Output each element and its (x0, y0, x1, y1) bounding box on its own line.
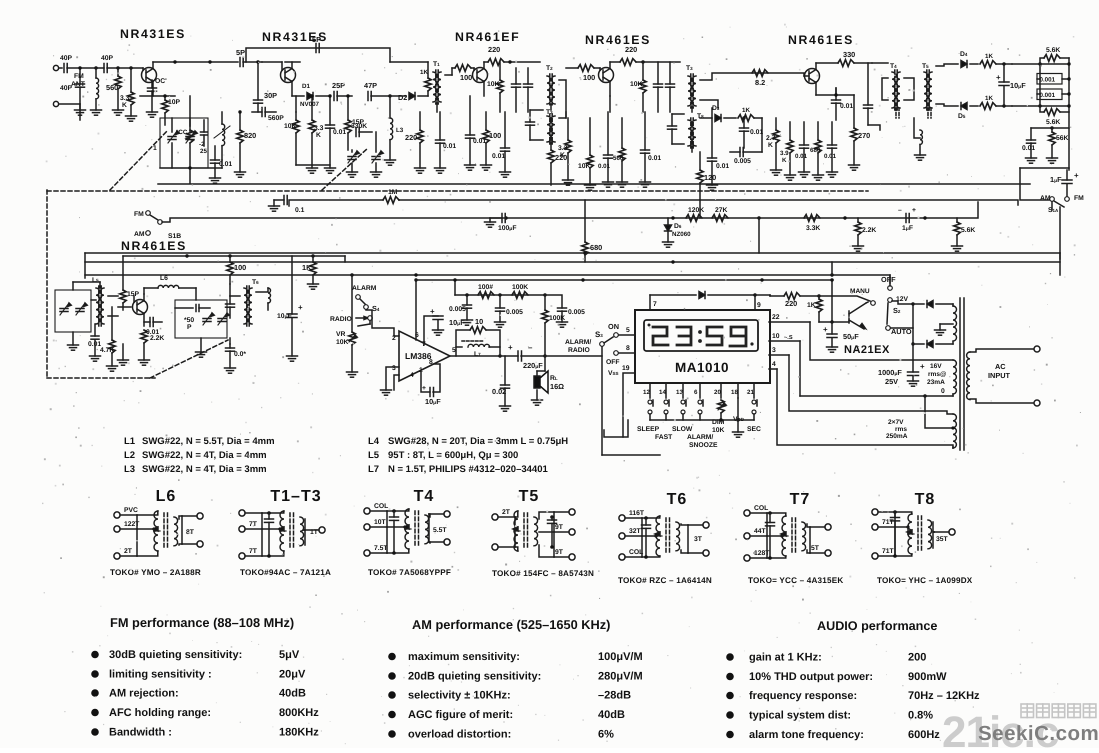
resistor 10K mixer (284, 112, 299, 165)
svg-text:4: 4 (772, 361, 776, 368)
svg-text:6: 6 (694, 389, 698, 396)
wire AM box (68, 282, 101, 350)
dashed gang frame (47, 130, 868, 378)
svg-text:280μV/M: 280μV/M (598, 671, 643, 683)
coil spec L3 (124, 464, 267, 475)
label T8 35T (936, 536, 949, 543)
label T4 5.5T (433, 527, 447, 534)
svg-text:T4: T4 (890, 63, 897, 70)
capacitor 1uF bus (898, 207, 916, 232)
switch MANU (850, 288, 875, 305)
resistor 100 C (452, 65, 474, 82)
svg-text:3.3: 3.3 (558, 145, 568, 152)
resistor 1K D3 (738, 107, 762, 121)
svg-text:128T: 128T (754, 550, 770, 557)
svg-text:*CC: *CC (176, 129, 188, 136)
transformer pictorial T1-T3 (239, 488, 331, 577)
svg-text:7: 7 (653, 301, 657, 308)
resistor 560 (106, 68, 124, 115)
capacitor 40P series 2 (101, 55, 114, 73)
svg-text:560P: 560P (268, 115, 284, 122)
resistor 100K z1 (478, 284, 494, 298)
display dots (648, 324, 754, 346)
svg-text:4: 4 (410, 372, 414, 379)
svg-text:N = 1.5T, PHILIPS #4312–020–34: N = 1.5T, PHILIPS #4312–020–34401 (388, 464, 548, 475)
svg-text:1000μF: 1000μF (878, 368, 902, 377)
svg-text:INPUT: INPUT (988, 371, 1011, 380)
svg-text:T6: T6 (252, 279, 259, 286)
wire pin10 route (799, 341, 801, 396)
resistor 100 C2 (481, 112, 502, 170)
svg-text:–: – (528, 343, 533, 352)
svg-text:TOKO= YHC – 1A099DX: TOKO= YHC – 1A099DX (877, 576, 973, 585)
watermark SeekiC.com (978, 722, 1099, 745)
svg-text:16Ω: 16Ω (550, 382, 564, 391)
potentiometer DIM 10K (712, 400, 726, 434)
speaker RL 16ohm (532, 356, 565, 405)
svg-text:15P: 15P (352, 119, 365, 126)
resistor 680 D (810, 122, 824, 180)
resistor 3.3K mixer (307, 94, 324, 173)
svg-text:2.7: 2.7 (766, 135, 776, 142)
svg-text:FM: FM (134, 211, 144, 218)
svg-text:27K: 27K (715, 207, 728, 214)
wire T5 out top (936, 64, 958, 66)
svg-text:16V: 16V (930, 363, 942, 370)
capacitor 40P shunt (60, 66, 86, 115)
svg-text:6%: 6% (598, 729, 614, 741)
svg-text:D5: D5 (958, 113, 966, 120)
bus wire y218 (162, 202, 978, 222)
pin 1 label (419, 367, 423, 374)
svg-text:SWG#28, N = 20T, Dia = 3mm L: SWG#28, N = 20T, Dia = 3mm L = 0.75μH (388, 436, 568, 447)
amp top rail (416, 278, 833, 281)
resistor 100K z3 (542, 295, 565, 356)
svg-text:40P: 40P (101, 55, 114, 62)
svg-text:122T: 122T (124, 521, 140, 528)
svg-text:47P: 47P (364, 81, 377, 90)
svg-text:P: P (187, 324, 192, 331)
svg-text:T8: T8 (697, 113, 704, 120)
FM spec row 2 (91, 669, 306, 681)
svg-text:14: 14 (659, 389, 666, 396)
capacitor 10uF pin7 (424, 307, 465, 345)
transistor Q3 NR461EF (473, 62, 488, 96)
capacitor 0.01 AM2 (144, 318, 162, 337)
svg-text:1K: 1K (985, 53, 993, 60)
svg-text:typical system dist:: typical system dist: (749, 710, 851, 722)
transformer T5 (922, 63, 932, 118)
capacitor 40P series top-left (60, 55, 73, 73)
resistor 4.7K AM (100, 307, 118, 371)
label L6 8T (186, 529, 195, 536)
label ALARM/RADIO (565, 339, 591, 354)
svg-text:40dB: 40dB (598, 709, 625, 721)
wire Q5 base (804, 75, 809, 77)
7-segment digit 9 (730, 327, 746, 346)
label Vss (608, 365, 634, 437)
pin 14 (659, 383, 666, 398)
svg-text:SWG#22, N = 4T, Dia = 3mm: SWG#22, N = 4T, Dia = 3mm (142, 464, 267, 475)
svg-text:25P: 25P (332, 81, 345, 90)
svg-text:3.3K: 3.3K (806, 225, 820, 232)
svg-text:L2: L2 (124, 450, 135, 461)
transformer pictorial L6 (110, 488, 203, 577)
capacitor 10uF AM (277, 256, 303, 361)
resistor 1K det1 (980, 53, 1012, 67)
svg-text:600Hz: 600Hz (908, 729, 940, 741)
wire antenna to rail (59, 68, 80, 120)
svg-text:8.2: 8.2 (755, 78, 765, 87)
svg-text:100: 100 (234, 263, 246, 272)
svg-text:TOKO# RZC – 1A6414N: TOKO# RZC – 1A6414N (618, 576, 712, 585)
resistor 1M bus (383, 189, 399, 203)
svg-text:10T: 10T (374, 519, 387, 526)
wire right rail elbow (1020, 167, 1069, 169)
resistor 56K det (1047, 128, 1070, 163)
svg-text:SLEEP: SLEEP (637, 426, 660, 433)
svg-text:D1: D1 (302, 83, 310, 90)
resistor 10K D (630, 62, 646, 112)
svg-text:95T : 8T, L = 600μH, Qμ = 300: 95T : 8T, L = 600μH, Qμ = 300 (388, 450, 518, 461)
diode D5b (958, 103, 978, 121)
resistor 3.3K D (558, 118, 574, 185)
svg-text:820: 820 (244, 131, 256, 140)
svg-text:2.2K: 2.2K (862, 227, 876, 234)
AM spec row 2 (388, 671, 642, 683)
svg-text:40dB: 40dB (279, 688, 306, 700)
coil spec L7 (368, 464, 548, 475)
resistor 5.6K det bottom (1040, 106, 1069, 126)
AM grounds (118, 344, 129, 365)
coil spec L4 (368, 436, 568, 447)
svg-text:100K: 100K (549, 315, 565, 322)
svg-text:overload distortion:: overload distortion: (408, 729, 511, 741)
svg-text:D3: D3 (712, 105, 720, 112)
resistor 1K T1 (420, 62, 431, 96)
svg-text:COL: COL (374, 503, 388, 510)
svg-text:NR461EF: NR461EF (455, 30, 520, 44)
svg-text:AM performance (525–1650 KHz): AM performance (525–1650 KHz) (412, 617, 610, 632)
svg-text:D2: D2 (398, 93, 407, 102)
svg-text:K: K (782, 157, 787, 164)
resistor 27K bus (712, 207, 728, 221)
AUDIO spec row 5 (726, 729, 940, 741)
svg-text:10: 10 (772, 333, 780, 340)
wire det right rail (1012, 58, 1071, 170)
svg-text:L3: L3 (124, 464, 135, 475)
svg-text:10K: 10K (578, 163, 591, 170)
7-segment digit 5 (707, 327, 722, 345)
svg-text:40P: 40P (60, 55, 73, 62)
svg-text:5: 5 (626, 327, 630, 334)
wire T4-T5 couple (882, 78, 914, 100)
7-segment digit 3 (677, 327, 691, 345)
wire left bus vertical (84, 253, 86, 278)
resistor 10K D2 (578, 118, 596, 190)
vertical drop x759 (758, 218, 760, 253)
bus wire y253 upper (85, 251, 1060, 254)
svg-text:100μF: 100μF (498, 225, 517, 232)
svg-text:2.2K: 2.2K (150, 335, 164, 342)
svg-text:ALARM/: ALARM/ (565, 339, 591, 346)
svg-text:SWG#22, N = 5.5T, Dia = 4mm: SWG#22, N = 5.5T, Dia = 4mm (142, 436, 275, 447)
capacitor 0.01 D8 (640, 112, 662, 187)
svg-text:560: 560 (106, 83, 118, 92)
svg-text:71T: 71T (882, 519, 895, 526)
svg-text:1K: 1K (302, 263, 312, 272)
resistor 3.9K (780, 122, 796, 180)
FM antenna terminals (53, 65, 85, 106)
svg-text:10μF: 10μF (425, 397, 441, 406)
label NR461ES stage 5 (788, 33, 854, 47)
colon (698, 330, 702, 343)
svg-text:0.01: 0.01 (219, 161, 232, 168)
resistor 220 D (620, 45, 637, 65)
wire AUTO to rect (891, 302, 915, 345)
svg-text:gain at 1 KHz:: gain at 1 KHz: (749, 652, 822, 664)
svg-text:TOKO#94AC – 7A121A: TOKO#94AC – 7A121A (240, 568, 331, 577)
svg-text:RL: RL (550, 375, 558, 382)
AUDIO spec row 1 (726, 652, 926, 664)
transformer pictorial T5 (492, 488, 594, 578)
svg-text:5P: 5P (312, 35, 321, 44)
svg-text:K: K (560, 152, 565, 159)
svg-text:100: 100 (583, 73, 595, 82)
svg-text:3.3: 3.3 (314, 125, 324, 132)
svg-text:3: 3 (392, 365, 396, 372)
capacitor 0.001 b (1037, 79, 1071, 106)
svg-text:2T: 2T (502, 509, 511, 516)
svg-text:0.01: 0.01 (795, 153, 808, 160)
resistor 10 out (456, 317, 500, 356)
capacitor 47P (364, 81, 392, 101)
label VDD (733, 398, 745, 423)
diode D7 rect (913, 301, 953, 308)
svg-text:44T: 44T (754, 528, 767, 535)
winding primary (967, 352, 970, 400)
transformer T2 (546, 65, 555, 110)
AM spec row 1 (388, 651, 642, 663)
capacitor pair C (512, 68, 533, 112)
AM spec row 3 (388, 690, 631, 702)
7-segment digit 2 (653, 327, 668, 345)
wire Q4 collector (610, 60, 680, 63)
pin 2 label (392, 335, 396, 342)
wire T2-T3 couple (559, 80, 566, 118)
svg-text:71T: 71T (882, 548, 895, 555)
svg-text:ON: ON (608, 322, 619, 331)
svg-text:K: K (768, 142, 773, 149)
variable capacitor gang 1b (186, 118, 197, 168)
svg-text:3.9: 3.9 (780, 150, 789, 157)
svg-text:25V: 25V (885, 377, 898, 386)
transistor Q6 AM (118, 288, 158, 326)
svg-text:SeekiC.com: SeekiC.com (978, 722, 1099, 745)
label MA1010 (675, 360, 729, 375)
variable capacitor AM d (218, 313, 229, 325)
svg-text:0.01: 0.01 (333, 129, 346, 136)
svg-text:+: + (1074, 171, 1079, 180)
pin 4 stub (769, 361, 777, 369)
diode D8 rect (913, 341, 953, 348)
wire S3 to pin5 (619, 327, 634, 335)
svg-text:5T: 5T (811, 545, 820, 552)
switch SLEEP (637, 400, 660, 433)
svg-text:rms@: rms@ (928, 371, 946, 378)
wire z to out (545, 355, 602, 357)
switch S4 (356, 295, 380, 313)
svg-text:TOKO= YCC – 4A315EK: TOKO= YCC – 4A315EK (748, 576, 843, 585)
capacitor 0.005 z3 (545, 295, 585, 327)
svg-text:OFF: OFF (881, 275, 896, 284)
pin 9 stub (755, 295, 761, 310)
wire pin4 route (777, 369, 953, 448)
svg-text:680: 680 (810, 147, 821, 154)
label T1-T3 1T (310, 529, 319, 536)
svg-text:MANU: MANU (850, 288, 870, 295)
svg-text:10μF: 10μF (277, 313, 292, 320)
svg-text:5.6K: 5.6K (961, 227, 975, 234)
svg-text:AC: AC (995, 362, 1006, 371)
wire Q3 collector (484, 60, 540, 63)
wire 16V bottom 0 (800, 388, 953, 398)
FM spec row 4 (91, 707, 319, 719)
pin 8 label (429, 359, 433, 366)
capacitor E2 (864, 63, 873, 125)
svg-text:Bandwidth :: Bandwidth : (109, 727, 172, 739)
wire T6b sec (256, 288, 271, 310)
svg-text:0.0*: 0.0* (234, 351, 246, 358)
svg-text:0.01: 0.01 (824, 153, 837, 160)
vertical drop x832 (831, 262, 833, 275)
switch ALARM/SNOOZE (687, 400, 718, 449)
wire Q1 emitter parts (140, 92, 175, 96)
svg-text:selectivity ± 10KHz:: selectivity ± 10KHz: (408, 690, 511, 702)
svg-text:7T: 7T (249, 521, 258, 528)
capacitor 220uF out (500, 343, 547, 370)
svg-text:T2: T2 (546, 65, 553, 72)
svg-text:SEC: SEC (747, 426, 761, 433)
svg-text:0.8%: 0.8% (908, 710, 933, 722)
label NR431ES stage 1 (120, 27, 186, 41)
svg-text:~.S: ~.S (784, 335, 793, 341)
inductor L6 AM (158, 275, 196, 300)
svg-text:10: 10 (475, 317, 483, 326)
capacitor 0.001 a (1037, 64, 1071, 84)
AM tuning box 2 (175, 300, 227, 338)
svg-text:rms: rms (895, 426, 907, 433)
svg-text:TOKO# 154FC – 8A5743N: TOKO# 154FC – 8A5743N (492, 569, 594, 578)
wire T5 out bottom (936, 104, 958, 106)
resistor 1K AM (302, 256, 319, 289)
svg-text:3T: 3T (694, 536, 703, 543)
capacitor 0.01 D5 (795, 122, 810, 177)
wire 12V S2 to diode line (892, 301, 913, 304)
capacitor 0.005 z1 (449, 295, 473, 325)
svg-text:+: + (920, 362, 925, 371)
svg-text:30dB quieting sensitivity:: 30dB quieting sensitivity: (109, 649, 242, 661)
pin 3 stub (769, 347, 789, 355)
pin 21 (747, 383, 754, 398)
svg-text:220: 220 (405, 133, 417, 142)
svg-text:0.005: 0.005 (506, 309, 523, 316)
AM spec row 5 (388, 729, 614, 741)
svg-text:0.1: 0.1 (295, 207, 305, 214)
svg-text:10K: 10K (630, 81, 643, 88)
svg-text:2T: 2T (124, 548, 133, 555)
label NR431ES stage 2 (262, 30, 328, 44)
svg-text:RADIO: RADIO (568, 347, 590, 354)
switch FAST (655, 400, 673, 441)
pin 22 stub (769, 314, 810, 322)
capacitor 1000uF (878, 344, 925, 386)
wire S4 to amp (366, 310, 399, 336)
capacitor 10uF det (996, 64, 1026, 106)
wire rail drop x832 (819, 278, 834, 322)
svg-text:T5: T5 (519, 488, 540, 505)
row under stage D (566, 96, 610, 118)
transistor Q2 NR431ES (281, 62, 296, 96)
label RADIO with arrow (330, 316, 372, 323)
svg-text:0.001: 0.001 (1040, 92, 1056, 99)
winding 7V 2x7 (886, 414, 956, 448)
FM spec row 5 (91, 727, 319, 739)
svg-text:1M: 1M (388, 189, 398, 196)
svg-text:220: 220 (625, 45, 637, 54)
svg-text:L5: L5 (368, 450, 380, 461)
svg-text:40P: 40P (60, 85, 73, 92)
capacitor 25P (332, 81, 352, 101)
svg-text:S1A: S1A (1048, 207, 1059, 214)
diode D4 (960, 51, 978, 68)
coil spec L5 (368, 450, 518, 461)
resistor 270 E (834, 93, 870, 170)
bus wire y200 (289, 200, 1018, 206)
pin 10 stub (769, 333, 800, 341)
svg-text:OC': OC' (155, 78, 167, 85)
svg-text:AM: AM (134, 231, 145, 238)
wire rail A1 (67, 67, 104, 69)
svg-text:D4: D4 (960, 51, 968, 58)
svg-text:8: 8 (626, 345, 630, 352)
inductor L3 (385, 96, 404, 165)
svg-text:ALARM: ALARM (352, 285, 377, 292)
svg-text:L3: L3 (396, 127, 404, 134)
capacitor 0.01 AM (88, 324, 101, 361)
svg-text:0.01: 0.01 (1022, 145, 1035, 152)
svg-text:900mW: 900mW (908, 671, 947, 683)
svg-text:0.01: 0.01 (716, 163, 729, 170)
capacitor 0.01 mixer (325, 94, 347, 173)
coil spec L2 (124, 450, 267, 461)
svg-text:limiting sensitivity :: limiting sensitivity : (109, 669, 212, 681)
svg-text:21: 21 (747, 389, 754, 396)
svg-text:19: 19 (622, 365, 630, 372)
capacitor pair D (654, 62, 675, 112)
op-amp U1 LM386 (399, 331, 450, 381)
transformer T6b AM out (230, 279, 259, 326)
svg-text:SLOW: SLOW (672, 426, 693, 433)
AM spec row 4 (388, 709, 625, 721)
transformer T8a (688, 113, 704, 152)
svg-text:180KHz: 180KHz (279, 727, 319, 739)
capacitor 50uF reg (823, 322, 859, 352)
capacitor 0.01 T1 (435, 112, 457, 173)
svg-text:*50: *50 (184, 317, 194, 324)
wire E to T4 (868, 63, 888, 130)
svg-text:–: – (898, 207, 902, 214)
